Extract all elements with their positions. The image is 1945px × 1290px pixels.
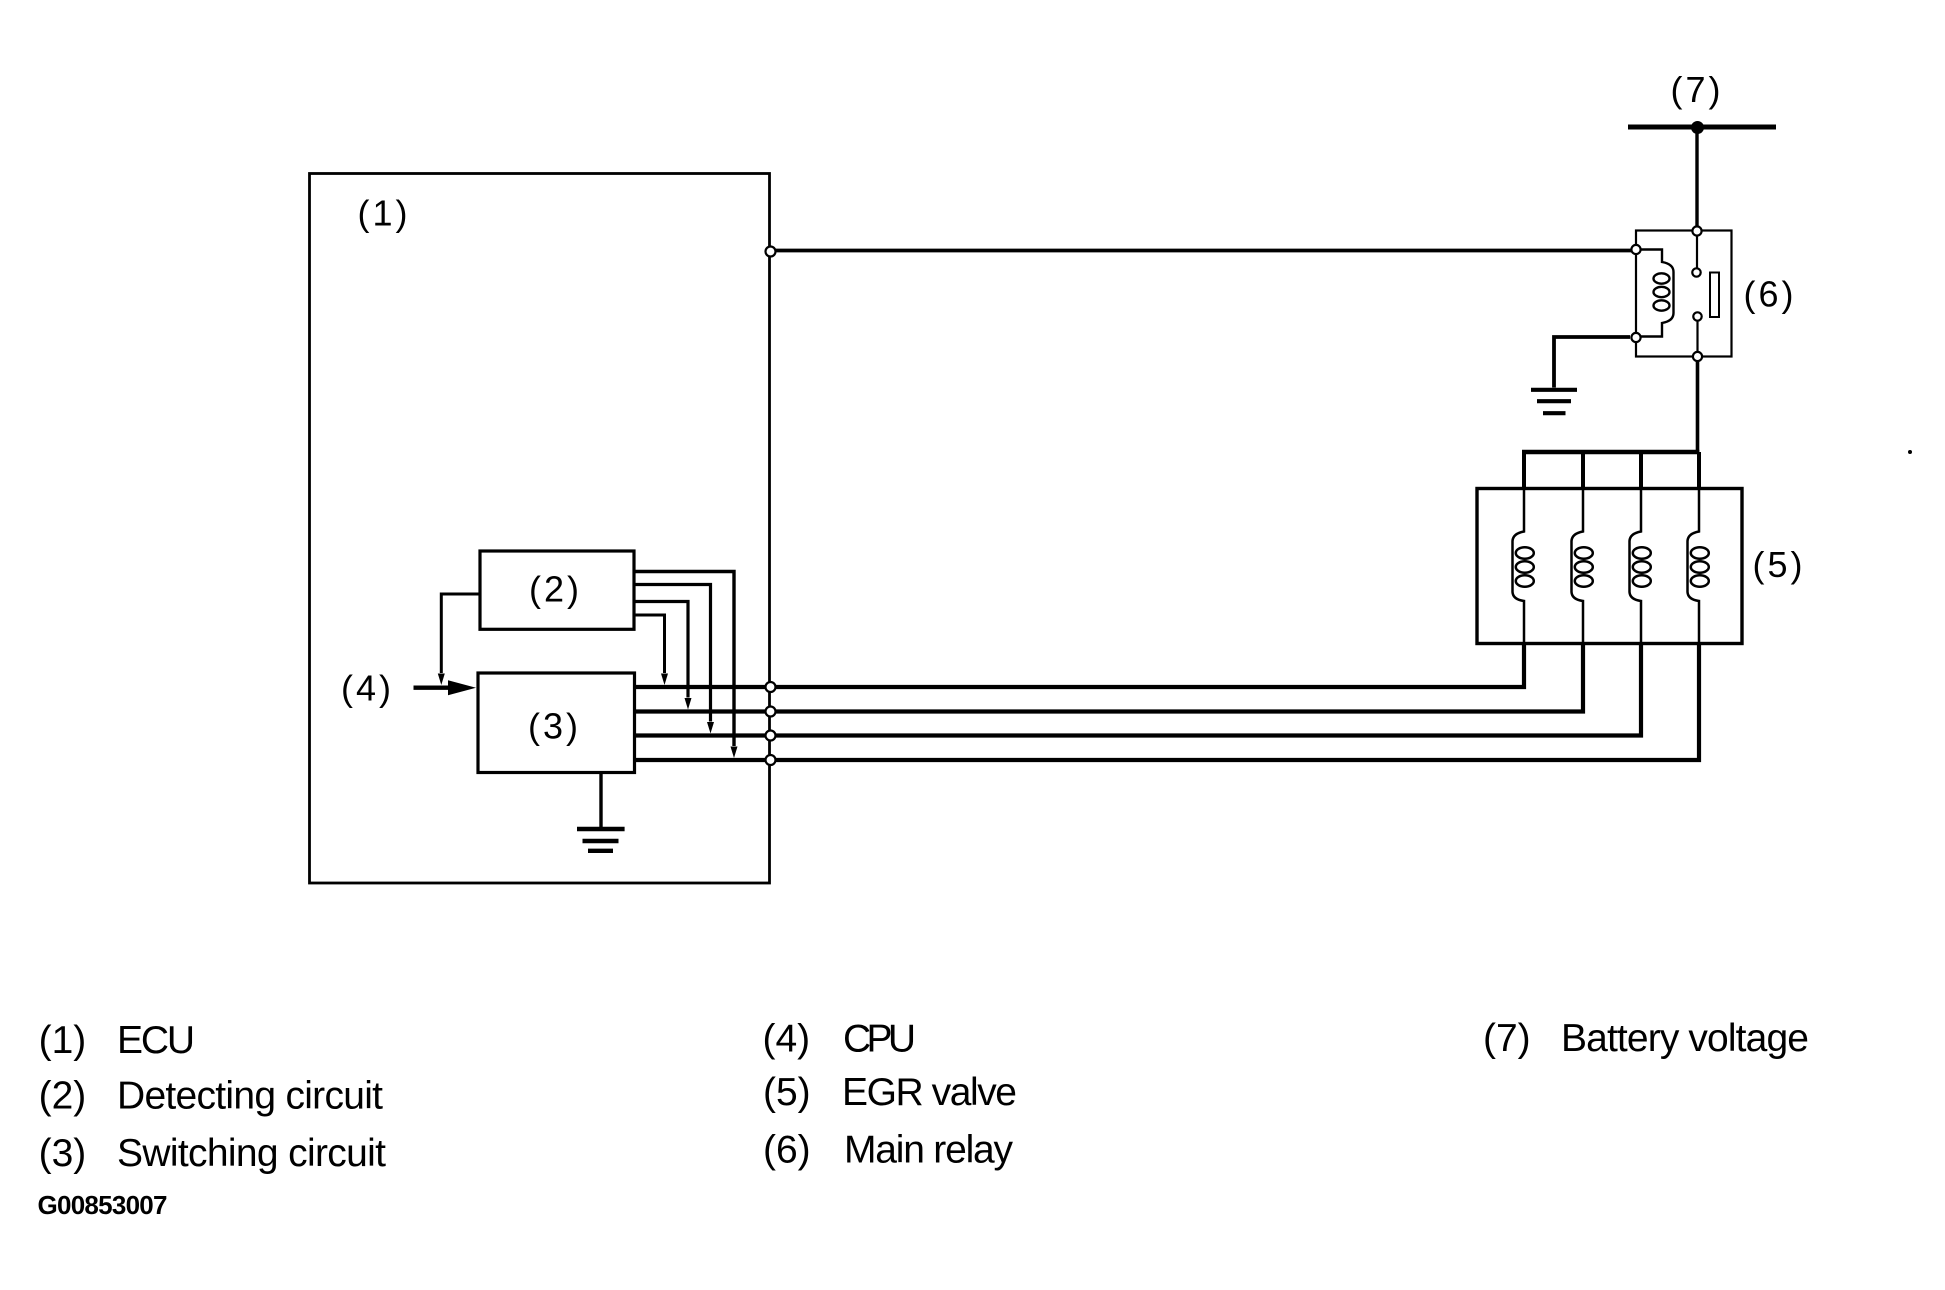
wire (3) to EGR coil 2 [635, 644, 1584, 712]
svg-text:EGR valve: EGR valve [842, 1071, 1017, 1114]
ECU terminal node C [766, 707, 776, 717]
relay inner contact top [1692, 268, 1700, 276]
bus drop wire 1 [1522, 452, 1526, 488]
svg-text:(7): (7) [1671, 69, 1724, 110]
svg-text:(1): (1) [39, 1019, 87, 1062]
svg-text:Detecting circuit: Detecting circuit [117, 1075, 383, 1118]
svg-text:(3): (3) [39, 1132, 87, 1175]
svg-text:(2): (2) [529, 569, 582, 610]
svg-text:(5): (5) [763, 1071, 811, 1114]
wire (3) to EGR coil 4 [635, 644, 1700, 760]
svg-text:(3): (3) [528, 706, 581, 747]
svg-text:Switching circuit: Switching circuit [117, 1132, 386, 1175]
wire (3) to EGR coil 3 [635, 644, 1642, 736]
relay terminal pin 87 [1693, 352, 1702, 361]
svg-text:Main relay: Main relay [844, 1129, 1014, 1172]
EGR valve box (5) [1477, 489, 1742, 644]
svg-text:(6): (6) [763, 1129, 811, 1172]
CPU input arrow (4) [414, 686, 451, 690]
ECU terminal node A [766, 247, 776, 257]
bus drop wire 4 [1697, 452, 1701, 488]
EGR coil L3 [1630, 488, 1651, 643]
svg-text:(1): (1) [358, 193, 411, 234]
detecting circuit box (2) [480, 551, 634, 629]
svg-text:(7): (7) [1483, 1017, 1531, 1060]
battery junction dot [1691, 121, 1704, 134]
bus drop wire 2 [1581, 452, 1585, 488]
ECU box U1 (1) [310, 174, 770, 884]
EGR coil L1 [1513, 488, 1534, 643]
ECU terminal node D [766, 731, 776, 741]
svg-text:ECU: ECU [117, 1019, 195, 1062]
svg-text:G00853007: G00853007 [38, 1190, 168, 1220]
relay coil [1641, 250, 1674, 337]
wire relay to EGR bus [1696, 361, 1700, 452]
svg-text:CPU: CPU [843, 1018, 916, 1061]
ground G2 for relay coil [1554, 337, 1630, 388]
ground G1 below switching circuit [599, 773, 602, 828]
wire (3) to EGR coil 1 [635, 644, 1525, 687]
svg-text:(4): (4) [341, 668, 394, 709]
relay switch wire top [1696, 235, 1698, 268]
EGR supply bus [1522, 450, 1699, 455]
svg-text:(6): (6) [1744, 274, 1797, 315]
relay switch wire bottom [1696, 321, 1698, 352]
wire feedback (2) to (4) node [441, 594, 480, 673]
wire (2) out 4 [634, 615, 665, 673]
wire (2) out 2 [634, 585, 711, 722]
bus drop wire 3 [1639, 452, 1643, 488]
wire (2) out 3 [634, 602, 688, 698]
svg-text:(4): (4) [763, 1018, 811, 1061]
ECU terminal node E [766, 755, 776, 765]
relay inner contact bottom [1693, 312, 1701, 320]
svg-text:(2): (2) [39, 1075, 87, 1118]
relay terminal pin 85 [1631, 245, 1640, 254]
scan speck [1908, 450, 1912, 454]
relay contact bar [1710, 273, 1719, 318]
EGR coil L2 [1572, 488, 1593, 643]
EGR coil L4 [1688, 488, 1709, 643]
relay K1 box (6) [1636, 231, 1732, 357]
switching circuit box (3) [478, 673, 635, 773]
relay terminal pin 86 [1631, 333, 1640, 342]
battery voltage bar (7) [1628, 125, 1776, 130]
wire ECU to relay coil [775, 249, 1632, 253]
svg-text:Battery voltage: Battery voltage [1561, 1017, 1809, 1060]
wire battery to relay [1695, 129, 1698, 230]
relay terminal pin 30 [1692, 226, 1701, 235]
ECU terminal node B [766, 682, 776, 692]
wire (2) out 1 [634, 572, 734, 747]
svg-text:(5): (5) [1753, 544, 1806, 585]
